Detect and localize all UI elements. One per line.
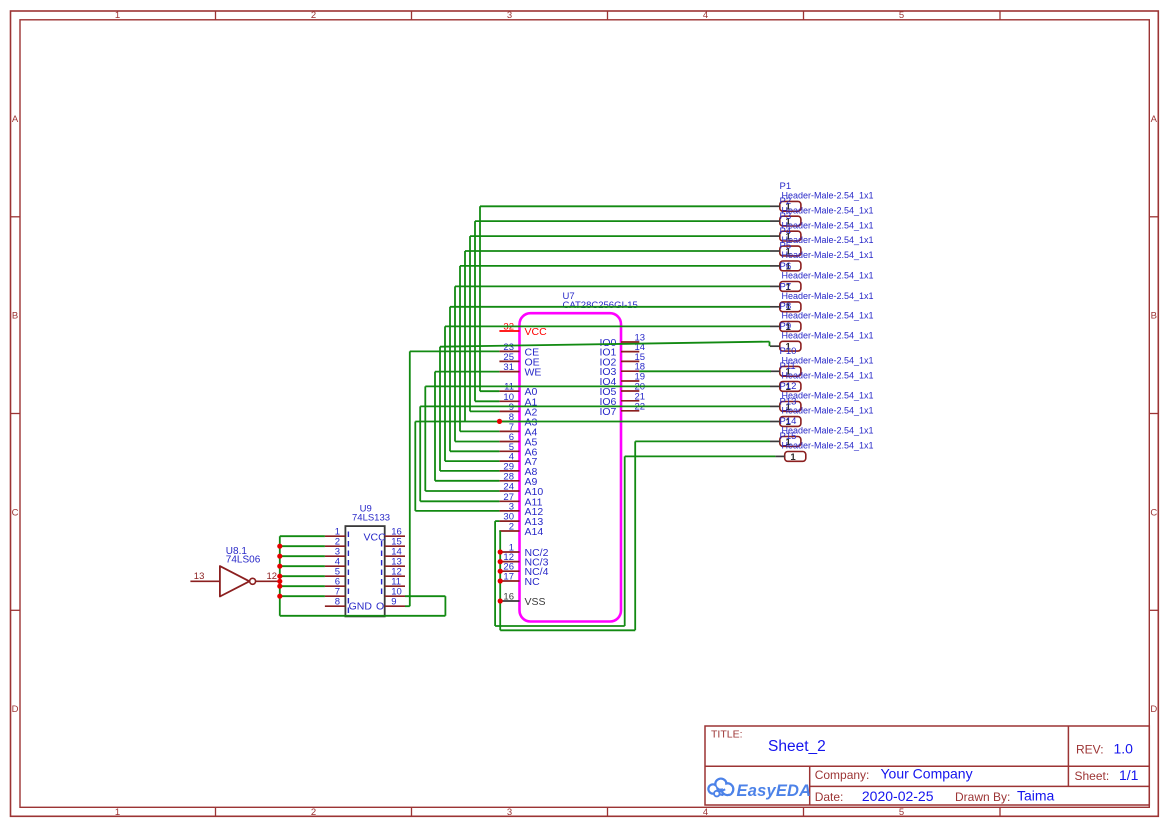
wire U9 pin 1 run <box>280 535 325 537</box>
svg-text:1/1: 1/1 <box>1119 767 1139 783</box>
wire U9 pin 7 run <box>280 595 325 597</box>
svg-text:EasyEDA: EasyEDA <box>737 782 812 800</box>
junction dot 11 <box>498 569 503 574</box>
wire input rail vertical <box>279 536 281 616</box>
svg-text:TITLE:: TITLE: <box>711 729 743 741</box>
U7 pin 11 (A0) left <box>499 382 537 399</box>
connector P14 Header-Male-2.54_1x1 <box>770 416 874 448</box>
connector P11 Header-Male-2.54_1x1 <box>770 361 874 393</box>
U7 pin 19 (IO4) right <box>599 372 645 389</box>
svg-text:Header-Male-2.54_1x1: Header-Male-2.54_1x1 <box>782 220 874 230</box>
wire P11-A10 vertical <box>424 386 426 491</box>
wire P15 vertical <box>624 456 626 626</box>
U9 pin 14 right <box>385 547 405 558</box>
svg-text:2: 2 <box>311 807 316 818</box>
svg-text:Header-Male-2.54_1x1: Header-Male-2.54_1x1 <box>782 191 874 201</box>
svg-text:Sheet:: Sheet: <box>1075 769 1110 783</box>
svg-text:Header-Male-2.54_1x1: Header-Male-2.54_1x1 <box>782 311 874 321</box>
U9 pin 13 right <box>385 557 405 568</box>
connector P9 Header-Male-2.54_1x1 <box>770 321 874 353</box>
wire A10 pin run <box>425 490 499 492</box>
border row tick right 3 <box>1149 609 1158 611</box>
EasyEDA logo cloud icon <box>708 779 733 797</box>
svg-text:5: 5 <box>899 807 904 818</box>
U9 pin 11 right <box>385 577 405 588</box>
wire U9.9-CE vertical <box>409 351 411 606</box>
border column tick top 5 <box>999 11 1001 20</box>
U8.1 output bubble <box>250 578 256 584</box>
junction dot 2 <box>277 554 282 559</box>
U9 pin 10 right <box>385 587 405 598</box>
svg-text:31: 31 <box>503 362 514 373</box>
svg-text:Company:: Company: <box>815 768 870 782</box>
U9 pin 3 left <box>325 547 346 558</box>
wire U8.1 output link <box>278 580 280 582</box>
wire A12 pin run <box>415 510 499 512</box>
svg-text:74LS06: 74LS06 <box>226 555 261 566</box>
junction dot 8 <box>497 419 502 424</box>
border column tick top 1 <box>215 11 217 20</box>
U9 pin 1 left <box>325 527 346 538</box>
wire A13-P15 bottom run <box>495 625 625 627</box>
border column tick bottom 3 <box>607 807 609 816</box>
wire P7-A6 pin run <box>450 450 499 452</box>
junction dot 1 <box>277 544 282 549</box>
wire P1-A0 pin run <box>480 390 499 392</box>
connector P7 Header-Male-2.54_1x1 <box>770 282 874 314</box>
svg-text:16: 16 <box>503 592 514 603</box>
wire P14 header run <box>635 440 770 442</box>
svg-text:Your Company: Your Company <box>881 766 973 782</box>
wire A14 vertical <box>499 531 501 630</box>
wire P9 sloped run <box>440 342 770 347</box>
U7 pin 13 (IO0) right <box>599 333 645 350</box>
wire P4-A3net vertical <box>464 251 466 421</box>
svg-text:Header-Male-2.54_1x1: Header-Male-2.54_1x1 <box>782 271 874 281</box>
junction dot 6 <box>277 584 282 589</box>
wire P12 crossing run <box>420 405 770 407</box>
U7 pin 32 (VCC) left <box>499 322 547 339</box>
wire P13-A12 vertical <box>414 422 416 511</box>
wire P8-A7 header run <box>445 325 770 327</box>
U9 internal dashed line left <box>347 532 349 615</box>
wire IO3-P10 run <box>639 370 771 372</box>
U9 pin 15 right <box>385 537 405 548</box>
U7 pin 5 (A6) left <box>499 442 537 459</box>
wire P4-A3net header run <box>465 250 770 252</box>
connector P15 Header-Male-2.54_1x1 <box>775 431 873 463</box>
svg-text:1: 1 <box>115 807 120 818</box>
U7 pin 29 (A8) left <box>499 461 537 478</box>
svg-text:13: 13 <box>194 571 205 582</box>
U7 pin 14 (IO1) right <box>599 342 645 359</box>
connector P5 Header-Male-2.54_1x1 <box>770 241 874 273</box>
wire rail bottom run <box>280 615 446 617</box>
svg-text:O: O <box>376 601 384 613</box>
svg-text:WE: WE <box>525 367 542 379</box>
svg-text:C: C <box>1150 507 1157 518</box>
U9 pin 9 right <box>385 597 405 608</box>
wire U9 pin 5 run <box>280 575 325 577</box>
U7 pin 7 (A4) left <box>499 422 537 439</box>
gate U8.1 74LS06 inverter triangle <box>220 566 250 596</box>
wire P8-A7 pin run <box>445 460 499 462</box>
junction dot 4 <box>277 574 282 579</box>
U7 pin 3 (A12) left <box>499 501 543 518</box>
U7 pin 2 (A14) left <box>499 522 543 539</box>
wire A13 pin stub <box>495 520 499 522</box>
border row tick left 1 <box>11 216 21 218</box>
U7 pin 26 (NC/4) left <box>499 562 548 579</box>
U7 pin 4 (A7) left <box>499 452 537 469</box>
U7 pin 1 (NC/2) left <box>499 543 548 560</box>
wire P8-A7 vertical <box>444 326 446 461</box>
U9 pin 6 left <box>325 577 346 588</box>
svg-text:Date:: Date: <box>815 790 844 804</box>
wire P2-A1 pin run <box>475 400 499 402</box>
wire P3-A2 vertical <box>469 236 471 411</box>
wire P5-A4 header run <box>460 265 770 267</box>
svg-text:Header-Male-2.54_1x1: Header-Male-2.54_1x1 <box>782 235 874 245</box>
svg-text:4: 4 <box>703 10 708 21</box>
U7 pin 30 (A13) left <box>499 512 543 529</box>
connector P13 Header-Male-2.54_1x1 <box>770 396 874 428</box>
IC U7 CAT28C256GI-15 chip body <box>520 313 622 621</box>
title block frame <box>705 726 1149 805</box>
wire P5-A4 pin run <box>460 430 499 432</box>
svg-text:17: 17 <box>503 572 514 583</box>
U9 pin 7 left <box>325 587 346 598</box>
svg-text:D: D <box>12 704 19 715</box>
IC U9 74LS133 chip body <box>345 526 384 616</box>
U7 pin 16 (VSS) left <box>499 592 545 609</box>
wire P6-A5 vertical <box>454 286 456 441</box>
wire U9 pin 3 run <box>280 555 325 557</box>
svg-text:NC: NC <box>525 576 541 588</box>
U7 pin 8 (A3) left <box>499 412 537 429</box>
U9 pin 5 left <box>325 567 346 578</box>
wire P15 header run <box>625 455 776 457</box>
svg-text:3: 3 <box>507 807 512 818</box>
connector P3 Header-Male-2.54_1x1 <box>770 211 874 243</box>
connector P1 Header-Male-2.54_1x1 <box>770 181 874 213</box>
U7 pin 23 (CE) left <box>499 342 539 359</box>
connector P6 Header-Male-2.54_1x1 <box>770 261 874 293</box>
wire A9 pin run <box>435 480 499 482</box>
border column tick bottom 1 <box>215 807 217 816</box>
svg-text:2: 2 <box>509 522 514 533</box>
svg-text:A: A <box>12 114 19 125</box>
svg-text:Header-Male-2.54_1x1: Header-Male-2.54_1x1 <box>782 291 874 301</box>
wire A8 vertical <box>439 347 441 471</box>
wire U9 pin 6 run <box>280 585 325 587</box>
border row tick left 2 <box>11 413 21 415</box>
wire P6-A5 header run <box>455 285 770 287</box>
U7 pin 12 (NC/3) left <box>499 552 548 569</box>
wire A8 pin run <box>440 470 499 472</box>
border column tick bottom 2 <box>411 807 413 816</box>
wire P9 step down <box>769 342 771 347</box>
junction dot 9 <box>498 549 503 554</box>
svg-text:Sheet_2: Sheet_2 <box>768 738 826 755</box>
svg-text:Header-Male-2.54_1x1: Header-Male-2.54_1x1 <box>782 205 874 215</box>
connector P10 Header-Male-2.54_1x1 <box>770 346 874 378</box>
svg-text:1.0: 1.0 <box>1114 741 1134 757</box>
svg-text:A: A <box>1151 114 1158 125</box>
wire P5-A4 vertical <box>459 266 461 432</box>
junction dot 13 <box>498 598 503 603</box>
svg-text:A14: A14 <box>525 526 544 538</box>
U7 pin 20 (IO5) right <box>599 382 645 399</box>
connector P12 Header-Male-2.54_1x1 <box>770 381 874 413</box>
svg-text:CAT28C256GI-15: CAT28C256GI-15 <box>563 300 638 311</box>
svg-text:5: 5 <box>899 10 904 21</box>
svg-text:8: 8 <box>335 597 340 608</box>
U7 pin 6 (A5) left <box>499 432 537 449</box>
svg-text:Header-Male-2.54_1x1: Header-Male-2.54_1x1 <box>782 371 874 381</box>
connector P4 Header-Male-2.54_1x1 <box>770 226 874 258</box>
U7 pin 27 (A11) left <box>499 492 542 509</box>
wire U9 pin 10 run <box>405 595 445 597</box>
wire P14 vertical <box>634 441 636 630</box>
wire A14 pin stub <box>498 530 501 532</box>
U7 pin 25 (OE) left <box>499 352 539 369</box>
wire pin10 loop vertical <box>444 596 446 616</box>
U8.1 pin 12 output <box>256 571 278 582</box>
svg-text:2: 2 <box>311 10 316 21</box>
svg-text:GND: GND <box>349 601 373 613</box>
U9 pin 2 left <box>325 537 346 548</box>
wire P1-A0 vertical <box>479 206 481 391</box>
wire U9 pin 2 run <box>280 545 325 547</box>
svg-text:REV:: REV: <box>1076 743 1104 757</box>
U7 pin 9 (A2) left <box>499 402 537 419</box>
svg-text:VCC: VCC <box>364 532 387 544</box>
wire P13 crossing run <box>415 421 770 423</box>
border column tick bottom 4 <box>803 807 805 816</box>
svg-text:D: D <box>1150 704 1157 715</box>
svg-text:1: 1 <box>790 452 796 463</box>
border column tick top 2 <box>411 11 413 20</box>
wire WE-A9 vertical <box>434 372 436 481</box>
border row tick right 2 <box>1149 413 1158 415</box>
svg-text:9: 9 <box>391 597 396 608</box>
border column tick top 4 <box>803 11 805 20</box>
junction dot 7 <box>277 594 282 599</box>
wire P3-A2 header run <box>470 235 770 237</box>
wire A14-P14 bottom run <box>500 629 635 631</box>
wire U9 pin 9 run <box>405 605 410 607</box>
svg-text:12: 12 <box>267 571 278 582</box>
svg-text:2020-02-25: 2020-02-25 <box>862 788 934 804</box>
svg-text:VCC: VCC <box>525 326 548 338</box>
wire CE pin run <box>410 350 500 352</box>
U7 pin 22 (IO7) right <box>599 401 645 418</box>
junction dot 10 <box>498 559 503 564</box>
svg-text:1: 1 <box>115 10 120 21</box>
U7 pin 18 (IO3) right <box>599 362 645 379</box>
svg-text:Header-Male-2.54_1x1: Header-Male-2.54_1x1 <box>782 406 874 416</box>
wire U9 pin 4 run <box>280 565 325 567</box>
U9 internal dashed line right <box>381 541 383 598</box>
svg-text:B: B <box>12 311 18 322</box>
svg-text:74LS133: 74LS133 <box>352 512 390 523</box>
U7 pin 24 (A10) left <box>499 482 543 499</box>
U7 pin 15 (IO2) right <box>599 352 645 369</box>
svg-text:IO7: IO7 <box>599 406 616 418</box>
U7 pin 31 (WE) left <box>499 362 541 379</box>
wire P7-A6 header run <box>450 306 770 308</box>
border row tick left 3 <box>11 609 21 611</box>
svg-text:4: 4 <box>703 807 708 818</box>
U7 pin 10 (A1) left <box>499 392 537 409</box>
border column tick bottom 5 <box>999 807 1001 816</box>
svg-text:Drawn By:: Drawn By: <box>955 790 1010 804</box>
svg-text:Header-Male-2.54_1x1: Header-Male-2.54_1x1 <box>782 330 874 340</box>
wire A11 pin run <box>420 500 499 502</box>
junction dot 5 <box>277 579 282 584</box>
wire WE pin run <box>435 371 499 373</box>
U8.1 pin 13 input <box>190 571 220 582</box>
wire P1-A0 header run <box>480 205 770 207</box>
border row tick right 1 <box>1149 216 1158 218</box>
U9 pin 8 left <box>325 597 346 608</box>
wire P3-A2 pin run <box>470 410 499 412</box>
svg-text:Header-Male-2.54_1x1: Header-Male-2.54_1x1 <box>782 441 874 451</box>
svg-text:C: C <box>12 507 19 518</box>
connector P8 Header-Male-2.54_1x1 <box>770 301 874 333</box>
junction dot 3 <box>277 564 282 569</box>
wire A13 vertical <box>494 521 496 626</box>
wire P7-A6 vertical <box>449 307 451 452</box>
svg-text:Taima: Taima <box>1017 788 1055 804</box>
wire P2-A1 header run <box>475 220 770 222</box>
junction dot 12 <box>498 578 503 583</box>
wire P12-A11 vertical <box>419 406 421 501</box>
U7 pin 28 (A9) left <box>499 471 537 488</box>
U7 pin 17 (NC) left <box>499 572 540 589</box>
wire P2-A1 vertical <box>474 221 476 401</box>
U9 pin 12 right <box>385 567 405 578</box>
wire P11 crossing run <box>425 385 770 387</box>
connector P2 Header-Male-2.54_1x1 <box>770 196 874 228</box>
svg-text:B: B <box>1151 311 1157 322</box>
U7 pin 21 (IO6) right <box>599 391 645 408</box>
border column tick top 3 <box>607 11 609 20</box>
svg-text:VSS: VSS <box>525 596 546 608</box>
svg-text:Header-Male-2.54_1x1: Header-Male-2.54_1x1 <box>782 250 874 260</box>
U9 pin 4 left <box>325 557 346 568</box>
U9 pin 16 right <box>385 527 405 538</box>
wire P6-A5 pin run <box>455 441 499 443</box>
svg-text:3: 3 <box>507 10 512 21</box>
